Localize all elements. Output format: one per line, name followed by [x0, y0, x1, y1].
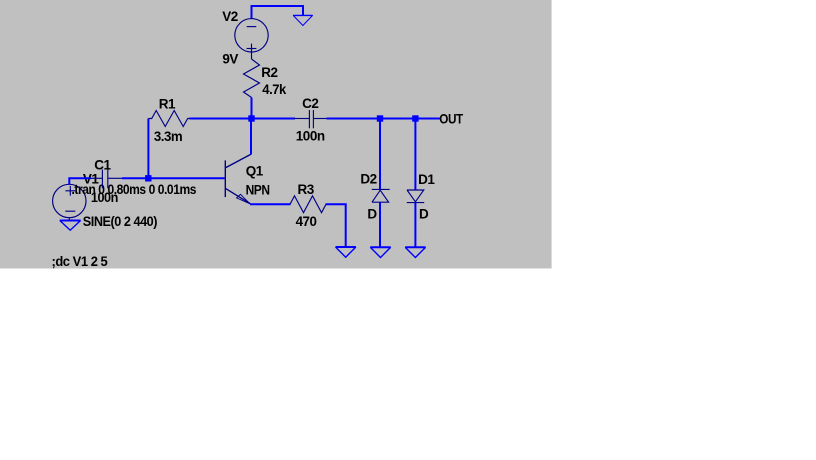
wire D1 top	[414, 119, 416, 191]
svg-text:R3: R3	[298, 182, 315, 197]
capacitor C1	[90, 170, 123, 189]
svg-text:4.7k: 4.7k	[262, 82, 286, 97]
voltage source V1	[53, 184, 86, 220]
svg-text:Q1: Q1	[246, 163, 264, 178]
wire C1 to base node	[122, 177, 148, 179]
transistor Q1	[225, 154, 251, 204]
wire collector node to C2	[190, 118, 296, 120]
wire collector vertical	[250, 119, 252, 155]
ground under V1	[60, 220, 81, 222]
resistor R3	[290, 196, 326, 213]
wire R3 to ground	[326, 204, 346, 247]
svg-text:R2: R2	[261, 65, 277, 80]
wire D2 top	[379, 119, 381, 190]
resistor R2	[244, 59, 260, 98]
svg-text:R1: R1	[159, 96, 176, 111]
wire emitter to R3	[250, 203, 291, 205]
svg-text:100n: 100n	[91, 190, 118, 205]
ground under R3	[336, 246, 356, 248]
svg-text:9V: 9V	[222, 51, 238, 66]
svg-text:C2: C2	[302, 96, 318, 111]
node junction D2	[377, 115, 383, 121]
diode D2	[372, 189, 390, 202]
diode D1	[407, 190, 424, 203]
svg-text:D: D	[367, 206, 377, 221]
svg-text:C1: C1	[94, 158, 111, 173]
node junction D1	[412, 115, 418, 121]
ground under D1	[405, 246, 425, 248]
ground under D2	[370, 246, 390, 248]
svg-text:D2: D2	[360, 172, 376, 187]
ground (top, V2 negative)	[293, 14, 313, 16]
svg-text:OUT: OUT	[439, 112, 464, 127]
svg-text:D1: D1	[418, 172, 435, 187]
node junction base	[145, 175, 151, 181]
resistor R1	[148, 111, 190, 127]
wire V2 top to ground	[252, 6, 304, 19]
wire R2 to collector node	[251, 98, 253, 119]
wire base node to Q1	[148, 177, 224, 179]
svg-text:3.3m: 3.3m	[154, 129, 183, 144]
wire R1 left vertical	[147, 119, 149, 179]
wire C2 to OUT	[327, 118, 441, 120]
wire D1 bottom	[414, 203, 416, 248]
capacitor C2	[294, 110, 327, 128]
svg-text:D: D	[419, 206, 429, 221]
svg-text:;dc V1 2 5: ;dc V1 2 5	[52, 254, 109, 269]
svg-text:100n: 100n	[296, 129, 325, 144]
node junction collector	[248, 115, 254, 121]
svg-text:SINE(0 2 440): SINE(0 2 440)	[83, 214, 157, 229]
wire V1 top to C1	[69, 178, 91, 184]
svg-text:NPN: NPN	[246, 182, 270, 197]
schematic canvas background	[0, 0, 552, 269]
wire D2 bottom	[379, 202, 381, 247]
voltage source V2	[235, 19, 268, 59]
svg-text:470: 470	[296, 214, 317, 229]
svg-text:V2: V2	[222, 9, 238, 24]
